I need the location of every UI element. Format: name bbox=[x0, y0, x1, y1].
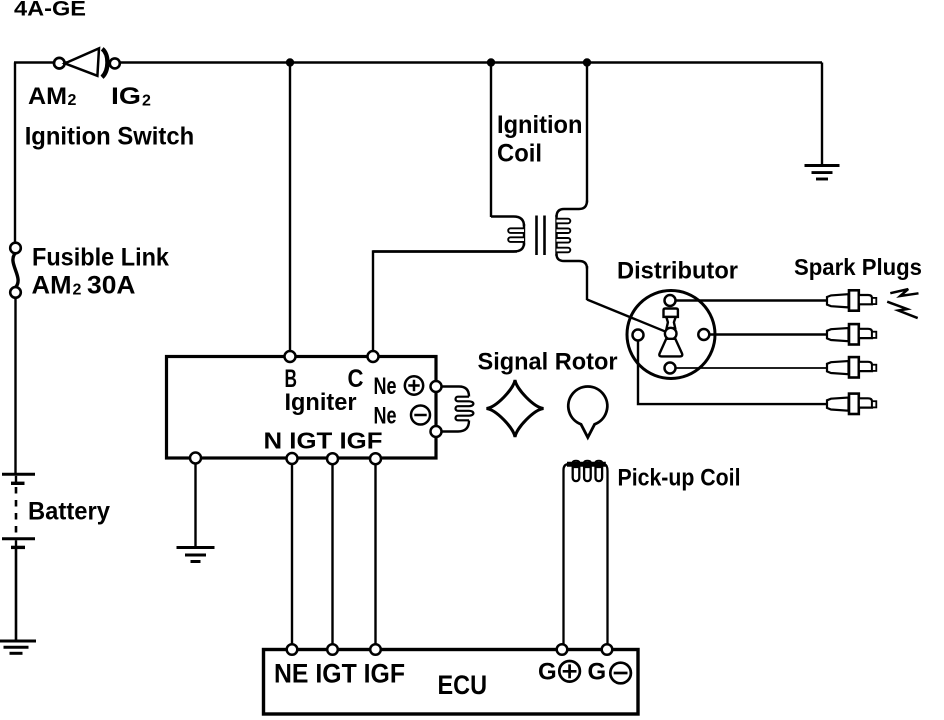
wire bus to igniter B bbox=[289, 63, 291, 352]
wire igniter IGT to ECU bbox=[331, 464, 333, 646]
wire plug 3 bbox=[676, 367, 828, 369]
svg-text:Ignition Switch: Ignition Switch bbox=[25, 123, 195, 151]
ECU terminal IGF bbox=[370, 644, 381, 655]
wire coil to rotor (diagonal) bbox=[587, 300, 666, 332]
igniter box U1 bbox=[167, 357, 437, 459]
distributor terminal 4 bbox=[633, 330, 644, 341]
ground (top right) bbox=[805, 166, 840, 180]
ECU terminal IGT bbox=[327, 644, 338, 655]
distributor terminal 3 bbox=[665, 363, 676, 374]
spark plug 3 bbox=[827, 357, 876, 377]
svg-text:IG: IG bbox=[111, 83, 141, 110]
spark plug 2 bbox=[827, 324, 876, 344]
svg-text:Distributor: Distributor bbox=[617, 258, 738, 285]
distributor terminal 1 bbox=[665, 295, 676, 306]
ignition switch SW bbox=[54, 48, 120, 77]
ECU box U2 bbox=[264, 650, 639, 715]
core bbox=[535, 216, 538, 256]
svg-text:Igniter: Igniter bbox=[285, 389, 357, 416]
svg-text:Ignition: Ignition bbox=[497, 111, 583, 139]
wire left vertical lower bbox=[14, 298, 16, 473]
secondary winding bbox=[557, 201, 588, 218]
ground (battery) bbox=[0, 641, 36, 653]
wire left vertical upper bbox=[14, 63, 16, 244]
svg-text:30A: 30A bbox=[87, 272, 136, 300]
wire top horizontal bus bbox=[14, 61, 822, 63]
igniter terminal E bbox=[190, 453, 201, 464]
ECU terminal G- bbox=[602, 644, 613, 655]
spark bolt 1 bbox=[890, 289, 918, 296]
battery BT bbox=[2, 474, 35, 547]
pick-up coil P1 bbox=[564, 461, 608, 646]
svg-text:AM: AM bbox=[32, 272, 72, 300]
svg-text:Ne: Ne bbox=[374, 403, 397, 430]
svg-text:G: G bbox=[538, 659, 557, 686]
igniter terminal IGF bbox=[370, 453, 381, 464]
fusible link FL bbox=[10, 243, 21, 298]
svg-text:Ne: Ne bbox=[374, 373, 397, 400]
wire coil secondary down bbox=[586, 266, 588, 300]
ignition coil T1 bbox=[373, 201, 587, 269]
igniter terminal IGT bbox=[327, 453, 338, 464]
svg-text:AM: AM bbox=[28, 83, 67, 110]
svg-text:4A-GE: 4A-GE bbox=[14, 0, 86, 21]
wire plug 4 bbox=[638, 341, 827, 405]
wire coil primary bottom to igniter C bbox=[373, 252, 517, 351]
svg-text:NE IGT IGF: NE IGT IGF bbox=[274, 658, 405, 688]
primary winding bbox=[491, 217, 524, 227]
svg-text:Signal Rotor: Signal Rotor bbox=[478, 348, 618, 375]
wire top-right drop to ground bbox=[821, 63, 823, 166]
spark plug 1 bbox=[827, 290, 876, 310]
wire bus to coil secondary bbox=[586, 63, 588, 203]
svg-text:Pick-up Coil: Pick-up Coil bbox=[618, 465, 741, 492]
svg-text:2: 2 bbox=[73, 282, 82, 299]
svg-text:Coil: Coil bbox=[497, 140, 542, 168]
igniter terminal Ne+ bbox=[431, 381, 442, 392]
distributor terminal 2 bbox=[698, 329, 709, 340]
svg-text:Fusible Link: Fusible Link bbox=[32, 244, 169, 272]
svg-text:N IGT IGF: N IGT IGF bbox=[264, 427, 383, 453]
wire bus to coil primary bbox=[490, 63, 492, 218]
svg-text:Battery: Battery bbox=[28, 498, 110, 526]
igniter terminal N bbox=[287, 453, 298, 464]
ECU terminal NE bbox=[287, 644, 298, 655]
wire plug 1 bbox=[676, 299, 828, 301]
ne pickup coil (at igniter) bbox=[442, 387, 474, 432]
spark bolt 2 bbox=[887, 302, 918, 318]
igniter terminal C bbox=[368, 351, 379, 362]
signal rotor star bbox=[487, 380, 544, 437]
signal rotor pin circle bbox=[568, 387, 607, 438]
ECU terminal G+ bbox=[557, 644, 568, 655]
svg-text:ECU: ECU bbox=[438, 670, 488, 700]
igniter terminal Ne- bbox=[431, 426, 442, 437]
wire igniter N to ECU bbox=[291, 464, 293, 646]
spark plug 4 bbox=[827, 394, 876, 414]
wire igniter IGF to ECU bbox=[374, 464, 376, 646]
svg-text:G: G bbox=[588, 659, 607, 686]
node junction B bus bbox=[286, 58, 294, 66]
node junction coil left bbox=[487, 58, 495, 66]
igniter terminal B bbox=[285, 351, 296, 362]
ground (igniter) bbox=[177, 548, 215, 562]
distributor case circle bbox=[627, 291, 715, 379]
svg-text:2: 2 bbox=[142, 93, 151, 110]
node junction coil right bbox=[583, 58, 591, 66]
wire igniter E to ground bbox=[194, 464, 196, 547]
wire battery to ground bbox=[15, 549, 18, 640]
svg-text:2: 2 bbox=[68, 92, 77, 109]
svg-text:Spark Plugs: Spark Plugs bbox=[794, 254, 922, 280]
wire plug 2 bbox=[709, 333, 827, 335]
distributor rotor bbox=[659, 309, 682, 357]
